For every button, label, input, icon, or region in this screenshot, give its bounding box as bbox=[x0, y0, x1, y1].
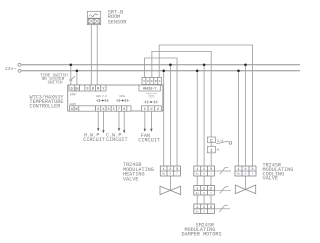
svg-text:Y: Y bbox=[143, 80, 145, 83]
terminal circle 24v lower bbox=[18, 69, 21, 72]
wire 24v supply line 1 bbox=[21, 64, 300, 66]
svg-text:5: 5 bbox=[108, 108, 110, 112]
svg-text:7: 7 bbox=[118, 108, 120, 112]
switch contact circle bbox=[70, 79, 72, 81]
terminal 6 bbox=[122, 106, 127, 111]
svg-text:2: 2 bbox=[169, 168, 171, 172]
aux switch C box bbox=[207, 137, 215, 153]
svg-text:VALVE: VALVE bbox=[123, 177, 138, 183]
svg-text:N: N bbox=[75, 108, 77, 112]
svg-text:24V: 24V bbox=[70, 93, 77, 97]
wire line2 drop to terminal Qx bbox=[76, 71, 78, 85]
svg-text:1: 1 bbox=[163, 168, 165, 172]
svg-text:3: 3 bbox=[251, 168, 253, 172]
wire riser HAX t1 to level3 bbox=[145, 58, 177, 166]
bottom terminal row bbox=[69, 106, 161, 111]
svg-text:DAMPER MOTORS: DAMPER MOTORS bbox=[182, 231, 222, 237]
svg-text:24v~: 24v~ bbox=[5, 66, 16, 72]
svg-text:No: No bbox=[196, 210, 200, 213]
svg-text:R: R bbox=[155, 80, 157, 83]
terminal circle 24v upper bbox=[18, 63, 21, 66]
terminal Y bbox=[101, 85, 106, 91]
svg-text:SWITCH: SWITCH bbox=[47, 82, 63, 86]
terminal U bbox=[148, 106, 155, 111]
damper A blade symbol bbox=[214, 167, 231, 174]
terminal C bbox=[111, 106, 116, 111]
svg-text:2: 2 bbox=[157, 108, 159, 112]
svg-text:SENSOR: SENSOR bbox=[108, 19, 127, 25]
terminal 7 bbox=[116, 106, 121, 111]
svg-text:6: 6 bbox=[123, 108, 125, 112]
wire time switch drop to terminal Q bbox=[70, 65, 72, 79]
svg-text:CIRCUIT: CIRCUIT bbox=[106, 137, 128, 143]
svg-text:CIRCUIT: CIRCUIT bbox=[138, 137, 160, 143]
terminal blank bbox=[80, 85, 85, 91]
wire damper T2 from line1 bbox=[203, 65, 205, 166]
valve stem heating bbox=[169, 176, 171, 190]
svg-text:E: E bbox=[151, 80, 153, 83]
relay contact group CWS bbox=[116, 95, 129, 102]
svg-text:1: 1 bbox=[144, 108, 146, 112]
cooling valve body bbox=[235, 185, 255, 194]
svg-text:2: 2 bbox=[203, 168, 205, 172]
wire sensor lead right bbox=[96, 25, 98, 85]
wire heating valve T2 from line1 bbox=[169, 65, 171, 166]
wire sensor lead left bbox=[90, 25, 92, 85]
room sensor SRT-B bbox=[87, 11, 100, 24]
svg-text:VALVE: VALVE bbox=[263, 176, 278, 182]
wire cooling valve T2 from line1 bbox=[245, 65, 247, 166]
wire heating valve T1 from line2 bbox=[163, 71, 165, 166]
svg-text:V: V bbox=[147, 80, 149, 83]
svg-text:No: No bbox=[196, 192, 200, 195]
wire switch to Q bbox=[70, 81, 72, 85]
svg-text:3: 3 bbox=[176, 168, 178, 172]
terminal wide blank bbox=[79, 106, 96, 111]
wire cooling valve T1 from line2 bbox=[238, 71, 240, 166]
svg-text:C: C bbox=[159, 80, 161, 83]
svg-text:1: 1 bbox=[196, 168, 198, 172]
terminal 1 bbox=[142, 106, 149, 111]
valve stem cooling bbox=[245, 176, 247, 190]
damper C blade symbol bbox=[214, 205, 230, 212]
junction dots bbox=[70, 64, 247, 73]
relay contact group HWS bbox=[96, 95, 109, 102]
wire aux switch link bbox=[210, 143, 212, 147]
terminal 2b bbox=[155, 106, 162, 111]
wire damper interlink A-B bbox=[196, 176, 198, 186]
svg-text:CWSu: CWSu bbox=[119, 95, 126, 98]
relay contact group modulating output bbox=[144, 92, 159, 104]
terminal Q bbox=[69, 85, 74, 91]
wire riser HAX t5 to level1 bbox=[159, 45, 252, 166]
wire 24v supply line 2 bbox=[21, 70, 300, 72]
terminal B bbox=[90, 85, 95, 91]
arrowheads circuits bbox=[97, 128, 153, 133]
svg-text:2: 2 bbox=[97, 108, 99, 112]
terminal R bbox=[95, 85, 100, 91]
terminal 2 bbox=[96, 106, 101, 111]
heating valve terminal block bbox=[160, 166, 180, 176]
svg-text:HAX53-Y: HAX53-Y bbox=[143, 86, 156, 90]
terminal A bbox=[69, 106, 74, 111]
svg-text:No: No bbox=[196, 173, 200, 176]
cooling valve terminal block bbox=[235, 166, 256, 176]
svg-text:MODULE: MODULE bbox=[148, 97, 154, 99]
terminal N bbox=[74, 106, 79, 111]
terminal 5 bbox=[106, 106, 111, 111]
wire riser HAX t3 to level2 bbox=[152, 52, 211, 138]
svg-text:3: 3 bbox=[210, 168, 212, 172]
damper motor block B bbox=[194, 186, 215, 196]
svg-text:NL: NL bbox=[217, 149, 221, 152]
terminal blank2 bbox=[127, 106, 131, 111]
terminal 4 bbox=[101, 106, 106, 111]
svg-text:CIRCUIT: CIRCUIT bbox=[83, 137, 105, 143]
svg-text:HWS P.U: HWS P.U bbox=[96, 95, 107, 98]
svg-text:1: 1 bbox=[237, 168, 239, 172]
controller WTC3 main box bbox=[68, 85, 163, 111]
wire HWP circuit pair bbox=[97, 111, 99, 128]
aux switch lever and contact bbox=[216, 141, 232, 144]
damper B blade symbol bbox=[214, 187, 231, 194]
HAX53-Y module terminal row bbox=[142, 78, 162, 85]
heating valve body bbox=[160, 186, 181, 194]
svg-text:No: No bbox=[237, 173, 241, 176]
wire damper interlink B-C bbox=[196, 195, 198, 204]
damper motor block A bbox=[194, 166, 215, 176]
svg-text:A8RV: A8RV bbox=[70, 103, 77, 106]
wire CWP circuit pair bbox=[118, 111, 120, 128]
svg-text:CONTROLLER: CONTROLLER bbox=[30, 104, 61, 110]
terminal S bbox=[85, 85, 90, 91]
svg-text:2: 2 bbox=[244, 168, 246, 172]
damper motor block C bbox=[194, 204, 215, 214]
wire FAN circuit pair bbox=[144, 112, 146, 130]
wire damper T1 from line2 bbox=[196, 71, 198, 166]
top terminal row bbox=[69, 85, 160, 91]
wire aux switch to damper T3 bbox=[210, 153, 212, 166]
svg-text:U: U bbox=[150, 108, 152, 112]
HAX53-Y cell bbox=[139, 85, 160, 91]
switch lever bbox=[72, 76, 75, 79]
svg-text:No: No bbox=[162, 173, 166, 176]
terminal Qx bbox=[74, 85, 79, 91]
